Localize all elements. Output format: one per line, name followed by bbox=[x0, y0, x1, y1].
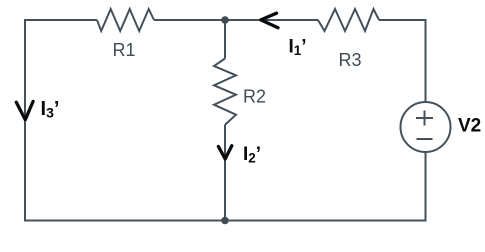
V2 minus sign bbox=[417, 138, 433, 140]
V2 plus sign bbox=[416, 111, 433, 126]
wire bottom bbox=[24, 220, 427, 222]
wire middle top lead bbox=[224, 20, 226, 59]
wire top-left (corner to R1) bbox=[25, 19, 97, 21]
svg-text:R1: R1 bbox=[112, 40, 135, 60]
resistor R2 bbox=[214, 59, 236, 125]
wire right top (corner to V2) bbox=[425, 19, 427, 102]
wire left branch bbox=[24, 19, 26, 221]
svg-text:I2’: I2’ bbox=[243, 144, 261, 166]
wire right bottom (V2 to corner) bbox=[425, 152, 427, 222]
arrow I3' (down on left wire) bbox=[16, 101, 33, 119]
svg-text:V2: V2 bbox=[458, 116, 481, 137]
wire top-right (R3 to corner) bbox=[379, 19, 426, 21]
wire top-middle (R1 to R3 through node) bbox=[154, 19, 318, 21]
wire middle bottom bbox=[224, 125, 226, 221]
svg-text:I1’: I1’ bbox=[289, 37, 307, 59]
resistor R1 bbox=[97, 9, 154, 31]
resistor R3 bbox=[318, 9, 379, 31]
node B (bottom junction) bbox=[221, 217, 229, 225]
svg-text:I3’: I3’ bbox=[41, 98, 60, 121]
arrow I1' (left-pointing on top wire) bbox=[261, 13, 278, 28]
svg-text:R2: R2 bbox=[243, 87, 266, 107]
svg-text:R3: R3 bbox=[338, 50, 361, 70]
voltage source V2 bbox=[401, 102, 451, 152]
node A (top junction) bbox=[221, 16, 229, 24]
arrow I2' (down on middle wire) bbox=[218, 146, 231, 159]
